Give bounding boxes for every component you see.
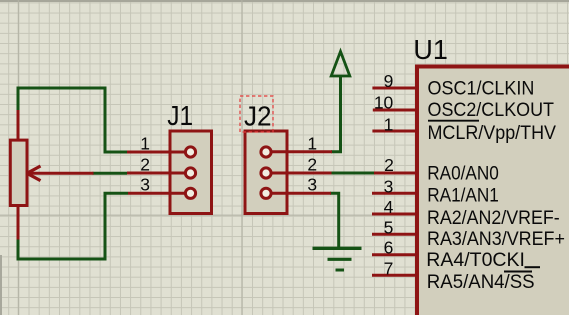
svg-text:U1: U1 [413, 34, 447, 65]
svg-text:2: 2 [384, 155, 394, 175]
U1 pin label MCLR/Vpp/THV [428, 121, 557, 143]
U1 pin label RA5/AN4/SS [427, 271, 535, 292]
J2 pin 3 stub [266, 192, 331, 195]
ground [313, 248, 362, 270]
svg-text:6: 6 [384, 238, 394, 258]
U1 pin 2 stub [374, 172, 416, 175]
J2 pin number 1 [307, 133, 317, 153]
IC U1 body [417, 67, 569, 315]
U1 pin label OSC2/CLKOUT [428, 98, 554, 120]
svg-text:J2: J2 [244, 101, 272, 132]
wire J2 pin 3 to ground [330, 193, 339, 247]
svg-text:RA3/AN3/VREF+: RA3/AN3/VREF+ [427, 227, 565, 249]
U1 pin 6 stub [372, 253, 416, 256]
U1 pin number 7 [384, 258, 394, 278]
wire J2 pin 1 to power [331, 76, 341, 152]
svg-text:10: 10 [374, 92, 394, 112]
U1 pin 5 stub [372, 233, 416, 236]
svg-text:2: 2 [140, 154, 150, 174]
potentiometer wiper arrow [27, 166, 94, 181]
U1 pin label RA1/AN1 [427, 183, 499, 205]
J2 pin number 3 [307, 175, 317, 195]
U1 pin 9 stub [372, 87, 416, 90]
svg-text:OSC1/CLKIN: OSC1/CLKIN [428, 77, 535, 99]
J2 pin 2 stub [266, 172, 332, 175]
U1 pin 3 stub [372, 192, 416, 195]
power symbol [331, 52, 350, 77]
potentiometer bottom pin [17, 206, 20, 240]
U1 pin 7 stub [372, 274, 416, 277]
potentiometer top pin [17, 110, 20, 140]
U1 pin label RA4/T0CKI [426, 249, 540, 271]
J1 pad 1 [185, 147, 195, 157]
J2 reference label [244, 101, 272, 132]
U1 pin number 3 [384, 176, 394, 196]
J2 pin number 2 [307, 154, 317, 174]
svg-text:5: 5 [384, 217, 394, 237]
J1 pin number 3 [140, 175, 150, 195]
wire pot wiper to J1 pin 2 [93, 172, 128, 175]
svg-text:4: 4 [384, 197, 394, 217]
wire pot bottom to J1 pin 3 [18, 193, 128, 259]
U1 reference label [413, 34, 447, 65]
U1 pin 1 stub [372, 130, 416, 133]
U1 pin number 2 [384, 155, 394, 175]
U1 pin label RA3/AN3/VREF+ [427, 227, 565, 249]
potentiometer RV1 body [10, 140, 27, 205]
U1 pin number 4 [384, 197, 394, 217]
J2 pad 3 [261, 188, 271, 198]
svg-text:3: 3 [307, 175, 317, 195]
svg-text:9: 9 [384, 71, 394, 91]
J1 pin 3 stub [128, 192, 185, 195]
svg-text:1: 1 [307, 133, 317, 153]
svg-text:2: 2 [307, 154, 317, 174]
U1 pin 10 stub [373, 109, 416, 112]
J1 pad 2 [185, 168, 195, 178]
J2 selection dashed box [240, 96, 273, 132]
wire pot top to J1 pin 1 [18, 88, 127, 152]
U1 pin number 6 [384, 238, 394, 258]
svg-text:OSC2/CLKOUT: OSC2/CLKOUT [428, 98, 554, 120]
J2 pad 2 [261, 168, 271, 178]
svg-text:MCLR/Vpp/THV: MCLR/Vpp/THV [428, 121, 557, 143]
svg-text:RA4/T0CKI: RA4/T0CKI [426, 249, 525, 271]
U1 pin number 9 [384, 71, 394, 91]
U1 pin label OSC1/CLKIN [428, 77, 535, 99]
J2 pin 1 stub [266, 150, 332, 153]
connector J2 body [245, 131, 287, 214]
svg-text:1: 1 [384, 114, 394, 134]
J1 pin 2 stub [127, 172, 185, 175]
svg-text:3: 3 [140, 175, 150, 195]
svg-text:3: 3 [384, 176, 394, 196]
svg-text:J1: J1 [167, 100, 193, 132]
svg-text:RA5/AN4/SS: RA5/AN4/SS [427, 271, 535, 292]
J1 reference label [167, 100, 193, 132]
J2 pad 1 [261, 147, 271, 157]
U1 pin label RA2/AN2/VREF- [427, 206, 560, 228]
J1 pin 1 stub [127, 151, 185, 154]
J1 pad 3 [185, 188, 195, 198]
U1 pin 4 stub [372, 213, 416, 216]
wire J2 pin 2 to U1 RA0 [331, 172, 375, 175]
svg-text:1: 1 [140, 133, 150, 153]
J1 pin number 2 [140, 154, 150, 174]
svg-text:RA1/AN1: RA1/AN1 [427, 183, 499, 205]
svg-text:RA2/AN2/VREF-: RA2/AN2/VREF- [427, 206, 560, 228]
U1 pin number 1 [384, 114, 394, 134]
svg-text:7: 7 [384, 258, 394, 278]
U1 pin label RA0/AN0 [427, 162, 499, 184]
svg-text:RA0/AN0: RA0/AN0 [427, 162, 499, 184]
U1 pin number 10 [374, 92, 394, 112]
J1 pin number 1 [140, 133, 150, 153]
connector J1 body [170, 131, 212, 214]
U1 pin number 5 [384, 217, 394, 237]
